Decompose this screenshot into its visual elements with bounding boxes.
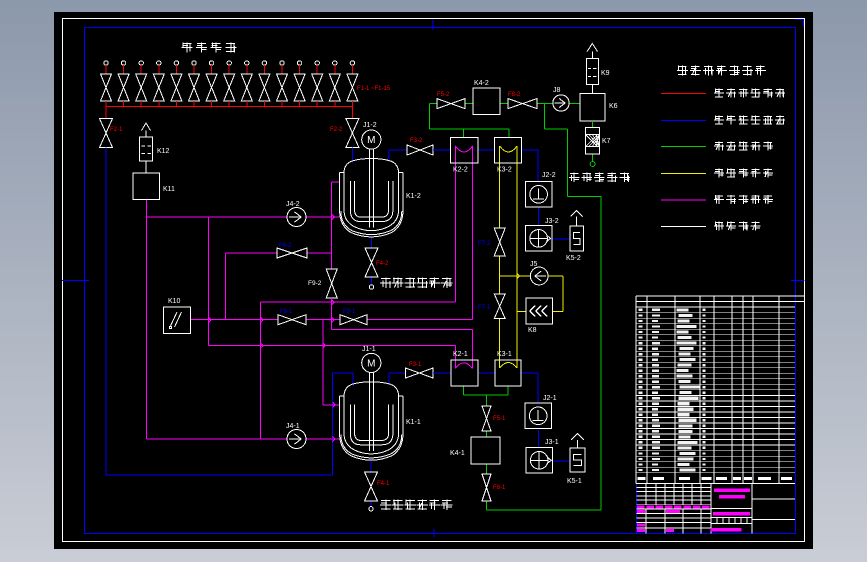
valve F1-7 with red stubs — [206, 61, 217, 107]
svg-text:F1-1 ~F1-15: F1-1 ~F1-15 — [357, 86, 391, 92]
svg-text:K7: K7 — [602, 138, 611, 145]
red stub to valve F2-1 — [105, 107, 107, 119]
magenta drop pump header branch — [208, 217, 210, 346]
svg-text:F8-2: F8-2 — [508, 92, 521, 98]
green drops into K2-2 K3-2 — [462, 129, 464, 138]
condenser K3-2 — [494, 138, 521, 164]
blue pipe J2-2 to J3-2 — [538, 207, 540, 226]
filter K7 with hatch — [586, 127, 600, 153]
blue pipe J3-1 to K5-1 — [553, 460, 570, 462]
svg-text:F2-2: F2-2 — [330, 127, 343, 133]
condenser K3-1 — [495, 360, 521, 386]
outlet port upper with label 干燥物料输出 — [369, 285, 373, 289]
svg-text:K2-2: K2-2 — [453, 167, 468, 174]
white outer frame — [63, 19, 805, 542]
legend line lengque — [661, 173, 706, 175]
magenta pipe to pump J4-2 — [147, 216, 288, 218]
blue tick crossing bottom frame — [433, 529, 435, 537]
svg-text:K2-1: K2-1 — [453, 351, 468, 358]
condenser K2-2 — [450, 138, 477, 164]
valve F9-1 — [340, 315, 367, 325]
valve F1-13 with red stubs — [312, 61, 323, 107]
blue pipe K1-1 bottom outlet — [370, 460, 372, 472]
valve F7-2 — [494, 228, 505, 256]
svg-text:J2-2: J2-2 — [542, 172, 556, 179]
valve F1-12 with red stubs — [294, 61, 305, 107]
tank K6 — [580, 94, 605, 121]
blue pipe K1-2 bottom outlet — [371, 237, 373, 248]
blue pipe F3-2 to K2-2 — [433, 149, 450, 151]
magenta K10 outlet line with valves F6-1 F9-1 — [191, 319, 279, 321]
magenta long header y345 — [209, 345, 456, 347]
blue border corner stub top-right — [795, 20, 804, 27]
yellow stub K8 left — [517, 310, 526, 312]
BOM header row text — [638, 477, 793, 480]
svg-text:F7-2: F7-2 — [478, 241, 491, 247]
svg-text:J3-2: J3-2 — [545, 218, 559, 225]
svg-text:F4-2: F4-2 — [376, 261, 389, 267]
valve F1-8 with red stubs — [224, 61, 235, 107]
valve F1-3 with red stubs — [136, 61, 147, 107]
svg-text:K8: K8 — [528, 327, 537, 334]
valve F1-14 with red stubs — [329, 61, 340, 107]
valve F1-9 with red stubs — [241, 61, 252, 107]
magenta below F9-2 — [331, 298, 333, 330]
magenta header to K2-1 right coil — [332, 329, 473, 331]
valve F2-2 — [346, 119, 359, 148]
pump J8 — [553, 95, 569, 111]
yellow K3-2 coil verticals and wave — [499, 146, 501, 228]
blue pipe K1-2 dome right to F3-2 — [388, 150, 390, 162]
magenta pipe to pump J4-1 — [147, 438, 288, 440]
blue pipe bottom run to K1-1 — [106, 474, 333, 476]
green condenser header — [430, 128, 509, 130]
reactor K1-1 with agitator motor J1-1 — [340, 373, 403, 461]
blue pipe K2-1 to K3-1 — [478, 372, 495, 374]
valve F1-5 with red stubs — [171, 61, 182, 107]
legend line daore — [661, 199, 706, 201]
valve F3-1 — [406, 368, 433, 378]
svg-text:F6-2: F6-2 — [279, 243, 292, 249]
magenta main riser from K11 — [146, 200, 148, 440]
green pipe F5-2 to K4-2 to F8-2 to J8 — [430, 103, 437, 105]
legend line zhengliu — [661, 146, 706, 148]
valve F1-6 with red stubs — [189, 61, 200, 107]
svg-text:J3-1: J3-1 — [545, 439, 559, 446]
svg-text:K1-1: K1-1 — [406, 419, 421, 426]
legend line zhenkong — [661, 120, 706, 122]
svg-text:F3-1: F3-1 — [409, 362, 422, 368]
valve F8-2 — [508, 99, 537, 109]
tank K4-2 — [473, 88, 500, 115]
condenser K2-1 — [451, 360, 478, 386]
valve F1-15 with red stubs — [347, 61, 358, 107]
blue pipe K2-2 to K3-2 — [478, 149, 495, 151]
svg-text:K1-2: K1-2 — [406, 193, 421, 200]
svg-text:M: M — [367, 135, 375, 146]
svg-text:J5: J5 — [530, 261, 538, 268]
blue tick crossing left frame — [62, 279, 89, 281]
BOM parts list table — [636, 296, 805, 484]
valve F7-1 — [494, 294, 505, 319]
svg-text:J1-2: J1-2 — [363, 122, 377, 129]
svg-text:F9-1: F9-1 — [343, 309, 356, 315]
svg-text:J4-1: J4-1 — [286, 423, 300, 430]
svg-text:J4-2: J4-2 — [286, 201, 300, 208]
pump J4-1 — [287, 430, 306, 449]
svg-text:K3-1: K3-1 — [497, 351, 512, 358]
BOM row text — [639, 308, 706, 471]
svg-text:K3-2: K3-2 — [497, 167, 512, 174]
valve F1-1 with red stubs — [101, 61, 112, 107]
magenta drop to K1-1 jacket top — [322, 320, 324, 405]
svg-text:J2-1: J2-1 — [543, 395, 557, 402]
valve F5-1 — [482, 406, 491, 431]
svg-text:J8: J8 — [553, 87, 561, 94]
connector K9-K6 — [591, 84, 593, 93]
green K7 outlet stub and port — [592, 154, 594, 162]
valve F6-2 — [277, 248, 307, 258]
svg-text:F6-1: F6-1 — [280, 309, 293, 315]
blue title block left edge — [636, 484, 638, 534]
valve F1-4 with red stubs — [153, 61, 164, 107]
connector K6-K7 (green) — [591, 121, 593, 128]
instrument J2-2 — [525, 182, 551, 208]
valve F1-11 with red stubs — [277, 61, 288, 107]
green K2-1 K3-1 bottoms to F5-1 — [463, 386, 465, 395]
valve F4-1 — [365, 472, 378, 501]
blue pipe K3-2 to J2-2 — [521, 149, 538, 151]
legend line changya — [661, 226, 706, 228]
svg-text:F8-1: F8-1 — [493, 485, 506, 491]
blue pipe J2-1 to J3-1 — [538, 430, 540, 447]
blue pipe riser to K1-1 — [332, 373, 334, 475]
instrument J3-2 — [525, 226, 551, 252]
svg-text:K4-1: K4-1 — [450, 450, 465, 457]
blue pipe J3-2 to K5-2 — [552, 238, 570, 240]
condensate tank K8 with ejector symbol — [526, 298, 553, 324]
blue pipe K3-1 to J2-1 — [521, 372, 538, 374]
svg-text:K10: K10 — [168, 298, 181, 305]
svg-text:K11: K11 — [163, 186, 175, 193]
blue tick crossing right frame — [791, 279, 805, 281]
blue pipe F3-1 to K2-1 — [433, 372, 451, 374]
label 清洁水输出 (clean water outlet) — [569, 173, 630, 182]
svg-text:K6: K6 — [609, 103, 618, 110]
yellow K3-1 wave — [500, 363, 517, 369]
valve F1-10 with red stubs — [259, 61, 270, 107]
outlet port lower with label 干燥物料输出 — [369, 507, 373, 511]
blue drawing border frame — [85, 28, 796, 534]
svg-text:F5-1: F5-1 — [493, 416, 506, 422]
svg-text:F2-1: F2-1 — [110, 127, 123, 133]
breather K5-2 with vent arrow — [571, 211, 583, 227]
svg-text:F7-1: F7-1 — [478, 305, 491, 311]
reactor K1-2 with agitator motor J1-2 — [340, 149, 403, 237]
blue tick crossing top frame — [432, 20, 434, 31]
instrument J3-1 — [526, 448, 552, 474]
tank K11 — [133, 173, 160, 200]
blue pipe F2-2 to K1-2 dome — [351, 148, 353, 163]
pump J4-2 — [287, 208, 306, 227]
svg-text:J1-1: J1-1 — [362, 346, 376, 353]
title block grid — [637, 484, 796, 534]
svg-text:K5-2: K5-2 — [566, 255, 581, 262]
valve F1-2 with red stubs — [118, 61, 129, 107]
title block magenta text — [637, 489, 750, 533]
legend title 系统图管路标识 — [677, 66, 766, 76]
pump J5 — [530, 267, 548, 285]
magenta pipe into K1-2 jacket top — [332, 181, 340, 183]
breather K5-1 with vent arrow — [571, 434, 584, 449]
heater K10 — [164, 307, 191, 334]
svg-text:F4-1: F4-1 — [377, 481, 390, 487]
svg-text:K5-1: K5-1 — [567, 478, 582, 485]
legend line wuwu — [661, 93, 706, 95]
red stub to valve F2-2 — [351, 107, 353, 119]
magenta return drop to J4-1 line — [260, 302, 262, 439]
magenta K2-1 coil verticals and wave — [454, 346, 456, 369]
valve F3-2 — [407, 145, 433, 155]
yellow pipe J5 to K8 loop — [548, 275, 563, 277]
valve F5-2 — [437, 99, 465, 109]
label 污水输入 (sewage input) — [182, 43, 237, 53]
magenta header to K2-2 left coil — [261, 301, 456, 303]
blue pipe into K1-1 dome left — [333, 372, 354, 374]
tank K9 with vent arrow — [587, 44, 597, 59]
magenta drop from F6-2 line — [224, 253, 226, 320]
svg-text:F3-2: F3-2 — [410, 138, 423, 144]
valve F2-1 — [100, 119, 113, 148]
magenta K2-2 coil verticals and wave — [454, 146, 456, 302]
svg-text:F5-2: F5-2 — [437, 92, 450, 98]
green clean water line to outlet — [544, 104, 546, 129]
svg-text:K9: K9 — [601, 70, 610, 77]
magenta F6-2 branch pipe — [225, 252, 277, 254]
instrument J2-1 — [525, 403, 551, 429]
valve F4-2 — [365, 248, 378, 277]
tank K4-1 — [471, 437, 500, 464]
green riser to condenser header — [429, 104, 431, 129]
svg-text:F9-2: F9-2 — [308, 280, 322, 287]
valve F6-1 — [278, 315, 306, 325]
red manifold header pipe — [106, 106, 352, 108]
filter K12 with vent arrow — [142, 123, 151, 137]
valve F8-1 — [482, 474, 491, 501]
blue pipe F2-1 down left side — [105, 148, 107, 476]
svg-text:K4-2: K4-2 — [474, 80, 489, 87]
blue pipe K1-1 dome right to F3-1 — [388, 373, 390, 385]
svg-text:K12: K12 — [157, 148, 170, 155]
svg-text:M: M — [367, 358, 375, 369]
yellow pipe to vacuum pump J5 — [500, 275, 531, 277]
valve F9-2 — [326, 269, 337, 298]
magenta jacket riser at K1-2 — [331, 182, 333, 269]
